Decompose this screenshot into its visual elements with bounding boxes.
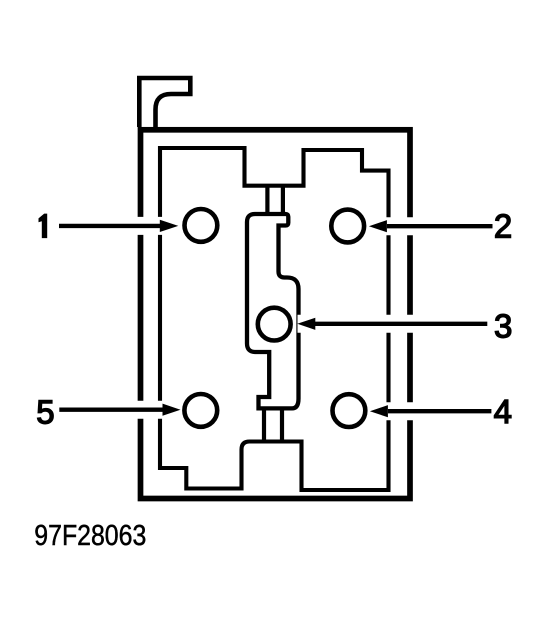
pin 4 <box>333 394 366 427</box>
pin 3 <box>258 308 291 341</box>
bottom neck <box>264 409 282 442</box>
pin 5 <box>184 394 217 427</box>
svg-text:2: 2 <box>494 208 512 245</box>
svg-text:97F28063: 97F28063 <box>34 520 146 552</box>
mounting tab <box>139 78 190 127</box>
arrow to pin 4 <box>370 405 493 417</box>
svg-text:3: 3 <box>494 308 512 345</box>
top neck <box>267 186 283 215</box>
svg-text:5: 5 <box>36 394 54 431</box>
pin 1 <box>185 209 218 242</box>
cavity outline with base block <box>160 148 389 490</box>
center rail <box>247 214 299 408</box>
pin 2 <box>331 210 364 243</box>
arrow to pin 2 <box>369 220 494 232</box>
arrow to pin 1 <box>52 220 181 232</box>
label 1 <box>39 214 48 239</box>
connector outer housing <box>141 130 411 499</box>
svg-text:4: 4 <box>494 393 512 430</box>
arrow to pin 3 <box>297 318 489 330</box>
arrow to pin 5 <box>52 404 182 416</box>
